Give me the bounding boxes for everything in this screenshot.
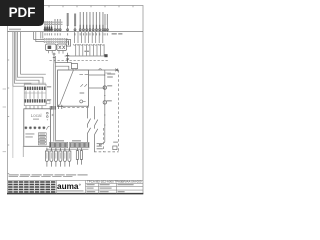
terminal numbers below strip: [45, 33, 108, 35]
relay labels: [47, 86, 51, 87]
interlock relay K box: [46, 44, 56, 51]
terminal strip hatch block A: [50, 142, 68, 147]
junction dots: [104, 74, 105, 125]
frame zone tick marks left: [8, 32, 10, 174]
junction cross: [115, 69, 118, 72]
rectifier XX box: [57, 44, 67, 51]
wire bundle to controls (staircase): [13, 32, 46, 87]
title block frame: [8, 180, 144, 193]
motor supply bus: [46, 148, 88, 150]
arrow terminal at wire end: [100, 142, 105, 146]
plug/socket separation plane (dashed): [50, 60, 109, 62]
indicator R wire vertical: [104, 70, 106, 142]
switch wire labels: [97, 143, 103, 149]
heater element R1: [113, 146, 117, 150]
pin ticks below box: [57, 105, 63, 109]
motor winding U V W symbols: [45, 148, 71, 167]
wires into terminal strip: [45, 25, 107, 32]
value labels right of wire: [106, 73, 115, 101]
terminal block small: [50, 106, 56, 110]
PDF badge: [0, 0, 44, 26]
terminal clamp symbols: [44, 29, 108, 31]
horizontal label rows above left terminals: [44, 22, 63, 23]
revision table text: [8, 181, 55, 193]
wire loop bump: [99, 69, 102, 70]
plug-socket contacts row: [73, 32, 104, 56]
svg-text:auma: auma: [57, 182, 79, 191]
labels above terminal strips: [56, 140, 64, 141]
button labels: [25, 133, 34, 134]
thermoswitch elements: [76, 148, 82, 165]
terminal lug: [104, 54, 107, 57]
selector symbol: [47, 126, 50, 130]
revision table rows: [8, 183, 57, 191]
terminal strip line XK: [8, 31, 144, 33]
pin symbol XB2: [66, 53, 69, 63]
indicator lamp H1: [103, 86, 106, 89]
left cable labels: [9, 29, 21, 31]
svg-text:Local: Local: [31, 113, 42, 118]
limit switch contacts in box: [79, 75, 88, 87]
actuator housing boundary (dashed): [63, 70, 119, 152]
coil wires: [26, 91, 42, 99]
footnote text lines: [9, 174, 88, 177]
frame bottom thick edge: [7, 193, 143, 195]
stub wire: [105, 72, 111, 74]
contactor contacts bottom row: [25, 99, 46, 102]
svg-text:TPCA 9EI-1E2-A000 TPA0BR/AA-0A: TPCA 9EI-1E2-A000 TPA0BR/AA-0AI-000: [87, 181, 142, 184]
indicator lamp H2: [103, 101, 106, 104]
wires to plug pin rows: [34, 32, 45, 42]
pushbutton lamps row: [24, 126, 45, 129]
frame zone tick marks top: [21, 6, 133, 8]
stubs from K/XX boxes: [48, 51, 63, 54]
local control station box: [24, 109, 51, 147]
plug pin row (sockets): [44, 39, 67, 43]
indication contact rects: [38, 133, 46, 145]
svg-text:PDF: PDF: [9, 5, 36, 20]
terminal strip hatch block B: [70, 142, 89, 147]
zone letters left margin: [3, 89, 6, 153]
LED indicators: [46, 112, 48, 114]
heater box: [66, 40, 70, 47]
signal wires right: [89, 70, 119, 88]
bus junction dots: [46, 149, 70, 150]
feeder taps: [55, 63, 71, 70]
relay/contactor board K1 K2: [24, 84, 46, 105]
switch compartment box: [58, 70, 89, 106]
terminal designation marks: [80, 25, 104, 29]
thermal element: [71, 64, 77, 69]
wire left column long: [12, 86, 14, 158]
drawing border frame: [8, 6, 144, 194]
limit switch chain S1: [87, 106, 90, 142]
winding inner marks: [47, 153, 70, 159]
contactor top pins: [25, 83, 45, 85]
contactor contacts top row: [25, 87, 46, 90]
auma address line: [57, 190, 84, 191]
label 27: [84, 51, 89, 52]
node XK label: [112, 33, 117, 34]
wire number labels (vertical text) above terminals: [45, 12, 107, 25]
collector line below sockets: [65, 55, 105, 57]
fuse blocks F1-F4: [44, 27, 52, 31]
mechanical coupling diagonal: [60, 70, 74, 106]
motor feeder wires (double): [53, 63, 55, 141]
contactor bottom pins: [26, 106, 42, 109]
position transmitter circle: [80, 100, 83, 103]
torque switch chain S2: [95, 106, 98, 151]
wire below local box: [22, 146, 24, 157]
pin symbol XB1: [52, 53, 55, 64]
tall cable designation smudges: [67, 13, 69, 26]
title block small texts: [87, 184, 134, 192]
test point plus: [51, 114, 53, 116]
